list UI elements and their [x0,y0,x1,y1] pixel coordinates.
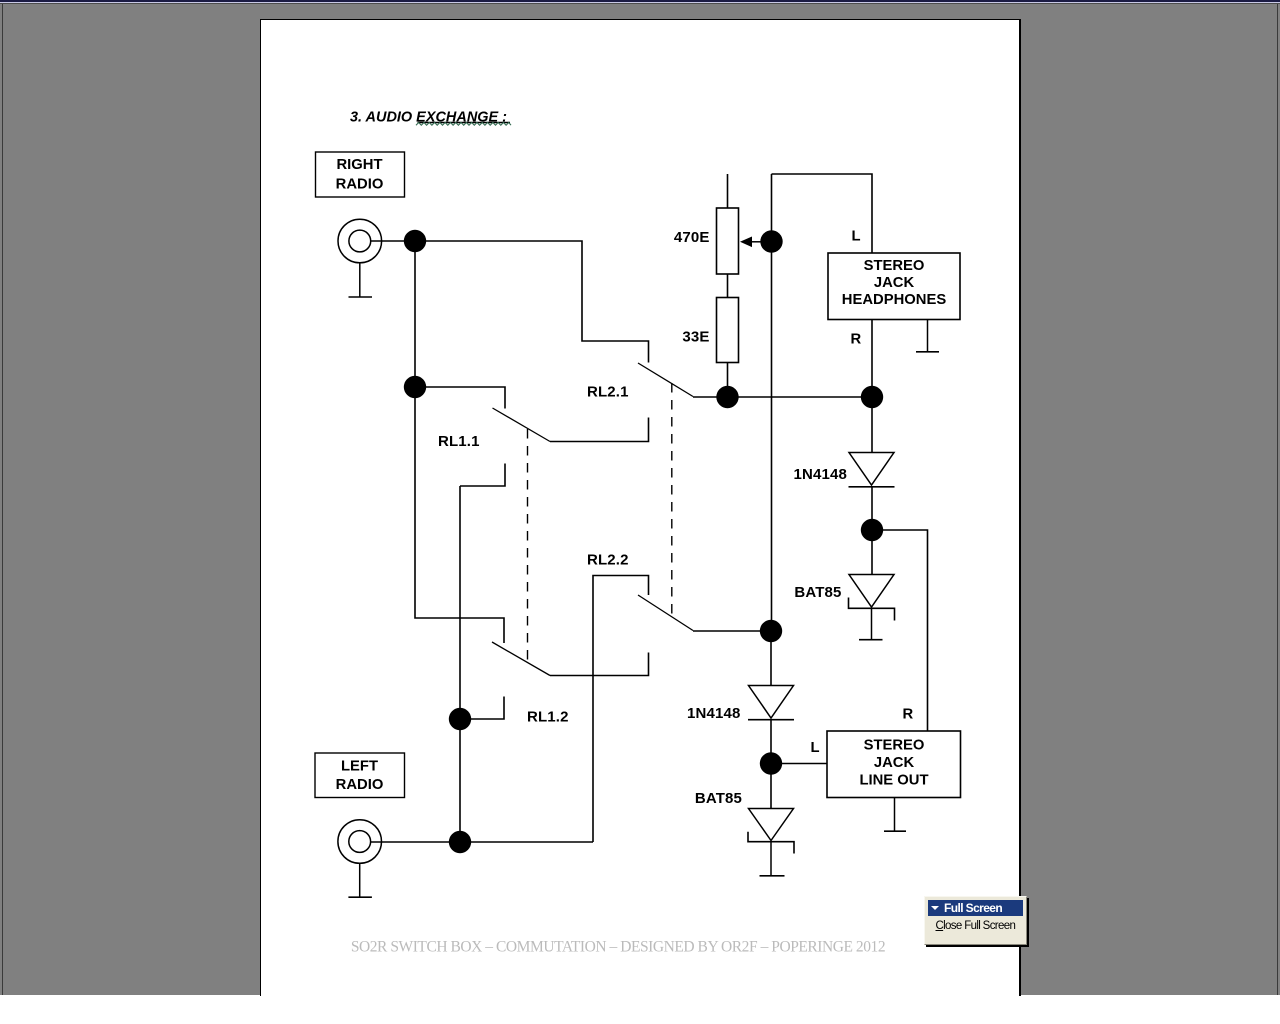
wire node F to diode 1N4148 left [770,631,772,686]
svg-text:BAT85: BAT85 [794,584,841,601]
wire vertical x771 from top run down to node F [771,174,773,631]
ground (BAT85 right) [859,608,883,639]
svg-text:RADIO: RADIO [336,177,384,193]
svg-text:RL1.1: RL1.1 [438,433,480,450]
svg-text:L: L [852,228,861,244]
wire 33E to node C [727,363,729,398]
svg-text:STEREO: STEREO [864,258,925,274]
ground (BAT85 left) [760,842,785,876]
svg-text:R: R [903,707,914,723]
wire stub above 470E [727,174,729,208]
relay contact RL1.2 blade [492,642,550,676]
mechanical link RL1 (dashed) [527,429,529,662]
wire top run to headphones L [772,174,873,253]
ground (right radio jack) [349,263,373,297]
wire node B down to RL1.2 pole [415,387,504,643]
wire node B to RL1.1 pole [415,387,505,409]
svg-text:1N4148: 1N4148 [687,705,740,722]
svg-text:RL2.1: RL2.1 [587,384,629,401]
wire RL1.2 throw to RL2.2 lower contact [550,653,649,676]
top window edge strip (lavender) [0,2,1280,3]
node F (junction dot) [760,620,782,642]
ground (line out box) [884,798,906,832]
svg-text:RL1.2: RL1.2 [527,708,569,725]
wire vertical bus x460 [459,486,461,842]
wire node A down to node B [414,241,416,387]
wire node I to line out R [872,530,928,731]
box STEREO JACK HEADPHONES [828,253,960,320]
top window edge strip (dark line) [0,3,1280,4]
title underline [418,122,511,124]
svg-text:470E: 470E [674,229,710,246]
wire RL1.2 lower contact to node E [471,697,504,720]
node J (junction dot) [760,752,782,774]
svg-text:STEREO: STEREO [864,738,925,754]
wiper arrow to 470E [740,237,761,248]
wire RL1.1 throw to RL2.1 lower contact [550,418,649,442]
relay contact RL2.1 blade [638,363,693,397]
diode BAT85 (right channel) [849,575,895,621]
svg-text:JACK: JACK [874,275,915,291]
white document page [260,19,1022,996]
svg-text:1N4148: 1N4148 [794,466,847,483]
svg-text:RADIO: RADIO [336,777,384,793]
wire RL1.1 lower contact to left bus [460,464,505,487]
svg-text:LEFT: LEFT [341,759,378,775]
node E (junction dot) [449,708,471,730]
ground (left radio jack) [348,863,372,897]
wire headphones R to node D and diode [871,320,873,453]
box RIGHT RADIO [316,152,405,197]
svg-text:JACK: JACK [874,755,915,771]
wire node A to RL2.1 pole [415,241,649,363]
node I (junction dot) [861,519,883,541]
box LEFT RADIO [315,753,405,798]
wire jack pin to node A [371,240,415,242]
node A (junction dot right radio) [404,230,426,252]
wire node J to BAT85 left [770,764,772,809]
relay contact RL2.2 blade [638,595,693,631]
svg-text:RIGHT: RIGHT [336,157,382,173]
svg-text:33E: 33E [682,328,709,345]
wire diode to node I [871,487,873,575]
ground (headphones box) [916,320,939,352]
node B (junction dot) [404,376,426,398]
svg-text:LINE OUT: LINE OUT [859,773,928,789]
svg-text:RL2.2: RL2.2 [587,551,629,568]
wire 470E to 33E [727,274,729,298]
box STEREO JACK LINE OUT [827,731,961,798]
left frame line [2,4,3,995]
connector right radio jack [338,219,382,263]
svg-text:L: L [811,740,820,756]
svg-text:HEADPHONES: HEADPHONES [842,292,947,308]
diode 1N4148 (left channel) [748,686,794,720]
node C (junction dot below 33E) [716,386,738,408]
svg-text:BAT85: BAT85 [695,790,742,807]
grammar squiggle (green wavy underline) [416,123,511,126]
wire node J to line out L [771,763,827,765]
connector left radio jack [338,820,382,864]
mechanical link RL2 (dashed) [671,383,673,617]
top window edge strip (navy) [0,0,1280,2]
node D (junction dot below headphones R) [861,386,883,408]
wire RL2.2 blade to node F [693,630,771,632]
diode 1N4148 (right channel) [849,453,895,487]
svg-text:R: R [851,331,862,347]
node H (junction dot wiper) [760,230,782,252]
svg-text:SO2R SWITCH BOX – COMMUTATION: SO2R SWITCH BOX – COMMUTATION – DESIGNED… [351,939,885,956]
Full Screen floating toolbar [924,896,1027,946]
node G (junction dot left radio) [449,831,471,853]
wire RL2.2 pole feed [593,576,649,843]
wire diode to node J [770,720,772,764]
right frame line [1277,4,1278,995]
relay contact RL1.1 blade [493,408,551,442]
resistor 33E [717,298,739,363]
diode BAT85 (left channel) [748,809,794,854]
wire RL2.1 blade to node C and node D [693,396,872,398]
wire left jack pin along bottom to RL2.2 feed [371,841,593,843]
resistor 470E [717,208,739,274]
